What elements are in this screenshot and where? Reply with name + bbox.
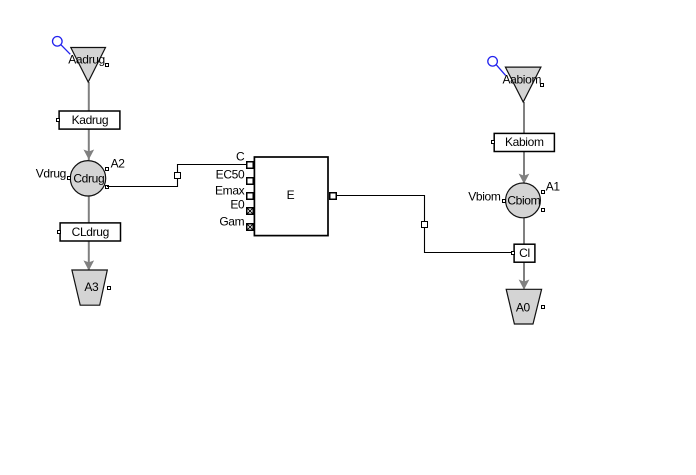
svg-text:E0: E0 (230, 197, 245, 211)
svg-text:Emax: Emax (215, 184, 245, 198)
svg-text:EC50: EC50 (216, 168, 245, 182)
svg-text:Vbiom: Vbiom (468, 189, 501, 203)
svg-text:E: E (287, 188, 295, 202)
svg-text:Aadrug: Aadrug (68, 52, 105, 66)
svg-text:CLdrug: CLdrug (72, 225, 109, 239)
svg-text:Aabiom: Aabiom (503, 72, 542, 86)
svg-text:Kabiom: Kabiom (505, 135, 544, 149)
svg-text:Cdrug: Cdrug (73, 171, 104, 185)
svg-text:Cbiom: Cbiom (507, 193, 540, 207)
svg-text:C: C (236, 149, 245, 163)
svg-text:Kadrug: Kadrug (72, 113, 109, 127)
svg-text:A1: A1 (546, 180, 561, 194)
svg-text:Vdrug: Vdrug (36, 166, 66, 180)
svg-text:Cl: Cl (519, 246, 530, 260)
svg-text:A0: A0 (516, 300, 531, 314)
svg-text:A2: A2 (111, 157, 126, 171)
svg-text:Gam: Gam (219, 215, 244, 229)
svg-text:A3: A3 (84, 280, 99, 294)
